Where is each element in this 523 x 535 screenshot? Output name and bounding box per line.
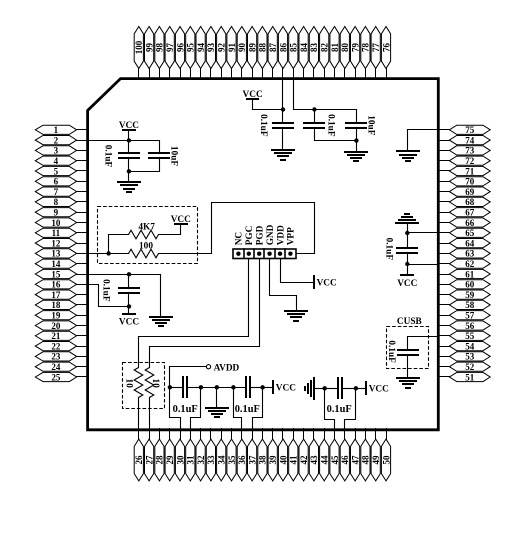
pin 83 [309,27,319,79]
svg-text:21: 21 [51,331,61,341]
pin 8 [35,197,88,207]
svg-text:84: 84 [299,43,309,53]
pin 90 [237,27,247,79]
pin 97 [165,27,175,79]
pin 98 [155,27,165,79]
node A junction [281,107,285,111]
pin 33 [206,429,216,481]
node junction bus-2 [199,385,203,389]
svg-text:53: 53 [465,352,475,362]
svg-text:PGC: PGC [245,226,255,246]
wire R3 to pin26 [138,398,140,431]
pin 20 [35,321,88,331]
svg-text:47: 47 [350,455,360,465]
svg-text:100: 100 [134,40,144,54]
svg-text:10: 10 [124,379,134,389]
pin 82 [320,27,330,79]
pin 17 [35,290,88,300]
svg-text:50: 50 [381,455,391,465]
ground (AVDD bus) [206,388,228,418]
svg-text:23: 23 [51,352,61,362]
pin 86 [278,27,288,79]
node junction bus-1 [168,385,172,389]
pin 70 [439,177,491,187]
pin 19 [35,311,88,321]
node junction (C10 left) [323,386,327,390]
svg-text:77: 77 [371,43,381,53]
pin 14 [35,259,88,269]
node junction (top-left gnd) [127,169,131,173]
pin 21 [35,331,88,341]
label C5 10uF [366,115,376,135]
pin 18 [35,300,88,310]
pin 93 [206,27,216,79]
pin 91 [227,27,237,79]
svg-text:VCC: VCC [397,279,417,289]
pin 77 [371,27,381,79]
pin 66 [439,218,491,228]
pin 2 [35,135,88,145]
wire pin86 down [282,79,284,110]
node junction (C6 bottom) [405,262,409,266]
svg-text:VCC: VCC [119,121,139,131]
pin 72 [439,156,491,166]
label J1 pin PGD [256,225,266,245]
pin 67 [439,208,491,218]
label R2 100 [139,241,153,251]
label R1 4K7 [138,223,155,233]
svg-text:31: 31 [186,455,196,465]
svg-text:98: 98 [155,43,165,53]
wire pin2 to node [87,140,129,142]
wire bus to VCC [263,387,273,389]
pin 10 [35,218,88,228]
pin 79 [350,27,360,79]
pin 95 [186,27,196,79]
power VCC symbol (top-center) [243,90,263,110]
connector J1 ICSP header [233,249,296,259]
svg-text:68: 68 [465,197,475,207]
pin 1 [35,125,88,135]
label J1 pin VPP [287,227,297,245]
wire bus-4 to pin36 [234,388,242,431]
svg-text:91: 91 [227,43,237,53]
pin 89 [247,27,257,79]
svg-text:48: 48 [361,455,371,465]
wire pin15 rail [87,274,161,276]
pin 60 [439,280,491,290]
node junction (C5 bottom) [354,138,358,142]
label C9 0.1uF [235,404,260,415]
pin 56 [439,321,491,331]
svg-text:AVDD: AVDD [214,364,240,374]
svg-text:33: 33 [206,455,216,465]
svg-text:0.1uF: 0.1uF [327,404,352,415]
svg-text:0.1uF: 0.1uF [386,340,396,363]
wire R2 to header loop [159,203,315,254]
svg-text:54: 54 [465,341,475,351]
pin 36 [237,429,247,481]
wire C10-left to pin45 [325,389,335,431]
label C11 0.1uF [386,340,396,363]
power VCC symbol (bottom-right) [366,382,389,395]
svg-text:90: 90 [237,43,247,53]
pin 30 [175,429,185,481]
pin 59 [439,290,491,300]
wire J1 PGC to R3 [139,259,249,368]
svg-text:67: 67 [465,208,475,218]
node junction (C7 top) [127,272,131,276]
svg-text:4K7: 4K7 [138,223,155,233]
svg-text:60: 60 [465,280,475,290]
node junction (C7 bottom) [127,304,131,308]
svg-text:11: 11 [52,228,61,238]
svg-text:51: 51 [465,372,475,382]
svg-text:30: 30 [175,455,185,465]
svg-text:6: 6 [54,177,59,187]
svg-text:78: 78 [361,43,371,53]
label C4 0.1uF [325,114,335,137]
pin 84 [299,27,309,79]
pin 42 [299,429,309,481]
svg-text:0.1uF: 0.1uF [325,114,335,137]
ground (left-middle) [150,317,172,326]
node junction (C10 right) [354,386,358,390]
wire R4 to pin27 [149,398,151,431]
pin 7 [35,187,88,197]
svg-text:80: 80 [340,43,350,53]
svg-text:56: 56 [465,321,475,331]
label C7 0.1uF [101,279,111,302]
svg-text:45: 45 [330,455,340,465]
svg-text:GND: GND [266,224,276,245]
wire pin13 in [87,253,109,255]
wire R1 to VCC [159,225,181,235]
svg-text:20: 20 [51,321,61,331]
svg-text:PGD: PGD [256,225,266,245]
pin 9 [35,208,88,218]
svg-text:85: 85 [289,43,299,53]
wire VCC to node A [253,109,283,111]
wire pin75 to ground [408,130,439,152]
pin 96 [175,27,185,79]
svg-text:46: 46 [340,455,350,465]
ground (ICSP) [285,311,307,321]
label C8 0.1uF [173,404,198,415]
svg-text:95: 95 [186,43,196,53]
power VCC symbol (reset network) [171,215,191,225]
pin 69 [439,187,491,197]
power VCC symbol (AVDD bus) [273,381,296,394]
label J1 pin VDD [276,225,286,245]
svg-text:34: 34 [217,455,227,465]
svg-text:86: 86 [278,43,288,53]
svg-text:65: 65 [465,228,475,238]
svg-text:VCC: VCC [243,90,263,100]
pin 41 [289,429,299,481]
svg-text:10uF: 10uF [169,146,179,166]
dashed box (PGC/PGD resistors) [123,363,165,409]
pin 49 [371,429,381,481]
capacitor C7 0.1uF [119,275,139,307]
svg-text:18: 18 [51,300,61,310]
pin 51 [439,372,491,382]
label net AVDD [214,364,240,374]
svg-text:17: 17 [51,290,61,300]
pin 55 [439,331,491,341]
label C3 0.1uF [258,114,268,137]
pin 74 [439,135,491,145]
wire pin65 to node [408,232,439,234]
svg-text:70: 70 [465,177,475,187]
capacitor C4 0.1uF [304,110,324,141]
svg-text:3: 3 [54,146,59,156]
pin 63 [439,249,491,259]
svg-text:81: 81 [330,43,340,53]
svg-text:93: 93 [206,43,216,53]
svg-text:96: 96 [175,43,185,53]
wire J1 VDD pin to VCC [281,259,314,283]
pin 100 [134,27,144,79]
node junction bus-3 [215,385,219,389]
svg-text:87: 87 [268,43,278,53]
svg-text:88: 88 [258,43,268,53]
pin 58 [439,300,491,310]
svg-text:10: 10 [51,218,61,228]
svg-text:63: 63 [465,249,475,259]
svg-text:37: 37 [247,455,257,465]
wire C10-right to pin46 [345,389,356,431]
svg-text:19: 19 [51,311,61,321]
svg-text:VCC: VCC [276,384,296,394]
svg-text:82: 82 [320,43,330,53]
svg-text:73: 73 [465,146,475,156]
svg-text:NC: NC [235,232,245,245]
wire pin16 to C7 bottom [87,285,129,307]
resistor R3 10 [134,368,143,398]
svg-text:0.1uF: 0.1uF [235,404,260,415]
svg-text:7: 7 [54,187,59,197]
node B junction [312,107,316,111]
pin 61 [439,269,491,279]
wire AVDD to bus [170,367,207,388]
svg-text:69: 69 [465,187,475,197]
svg-text:97: 97 [165,43,175,53]
svg-text:9: 9 [54,208,59,218]
svg-text:94: 94 [196,43,206,53]
svg-text:66: 66 [465,218,475,228]
svg-text:0.1uF: 0.1uF [101,279,111,302]
pin 22 [35,341,88,351]
svg-text:12: 12 [51,238,61,248]
IC U1 body outline [88,79,439,430]
pin 65 [439,228,491,238]
capacitor C5 10uF [346,110,366,152]
pin 92 [217,27,227,79]
pin 48 [361,429,371,481]
svg-text:72: 72 [465,156,475,166]
svg-text:13: 13 [51,249,61,259]
power VCC symbol (ICSP VDD) [314,276,337,288]
svg-text:27: 27 [144,455,154,465]
label C10 0.1uF [327,404,352,415]
svg-text:CUSB: CUSB [397,317,422,327]
capacitor C10 0.1uF [325,378,356,398]
resistor R4 10 [145,368,154,398]
svg-text:44: 44 [320,455,330,465]
svg-text:0.1uF: 0.1uF [383,238,393,261]
wire node B to C5 top [315,109,357,111]
capacitor C9 0.1uF [246,377,263,397]
svg-text:43: 43 [309,455,319,465]
pin 13 [35,249,88,259]
svg-text:0.1uF: 0.1uF [173,404,198,415]
svg-text:100: 100 [139,241,153,251]
dashed box (CUSB) [387,327,429,369]
wire J1 GND pin to ground [270,259,297,311]
svg-text:39: 39 [268,455,278,465]
svg-text:74: 74 [465,135,475,145]
node junction (C6 top) [405,231,409,235]
capacitor C8 0.1uF [170,377,201,397]
svg-text:26: 26 [134,455,144,465]
wire pin55 to C11 [408,337,439,351]
pin 78 [361,27,371,79]
svg-text:92: 92 [217,43,227,53]
pin 46 [340,429,350,481]
pin 32 [196,429,206,481]
svg-text:14: 14 [51,259,61,269]
pin 39 [268,429,278,481]
svg-text:4: 4 [54,156,59,166]
wire bus-2 to pin31 [191,388,201,431]
pin 81 [330,27,340,79]
svg-text:VCC: VCC [369,385,389,395]
svg-text:41: 41 [289,455,299,465]
svg-text:25: 25 [51,372,61,382]
node junction (top-left VCC rail) [127,138,131,142]
svg-text:VPP: VPP [287,227,297,245]
wire node up to R1 [109,235,129,254]
svg-text:71: 71 [465,166,475,176]
capacitor C6 0.1uF [397,233,417,265]
svg-text:15: 15 [51,269,61,279]
svg-text:24: 24 [51,362,61,372]
pin 24 [35,362,88,372]
wire bus mid [201,387,246,389]
pin 15 [35,269,88,279]
label net CUSB [397,317,422,327]
svg-text:52: 52 [465,362,475,372]
node junction bus-4 [231,385,235,389]
svg-text:42: 42 [299,455,309,465]
pin 85 [289,27,299,79]
svg-text:38: 38 [258,455,268,465]
node junction bus-5 [260,385,264,389]
node junction (reset) [106,251,110,255]
ground (under C3) [272,150,294,160]
ground (sideways, bottom-right) [305,378,325,399]
power VCC symbol (flipped, left-middle) [119,307,139,328]
wire J1 PGD to R4 [150,259,260,368]
ground (CUSB) [397,378,419,388]
pin 35 [227,429,237,481]
label C1 0.1uF [103,145,113,168]
pin 87 [268,27,278,79]
pin 94 [196,27,206,79]
power VCC symbol (flipped, right-middle) [397,265,417,290]
svg-text:75: 75 [465,125,475,135]
pin 28 [155,429,165,481]
svg-text:1: 1 [54,125,59,135]
svg-text:22: 22 [51,341,61,351]
svg-text:64: 64 [465,238,475,248]
svg-text:2: 2 [54,135,59,145]
pin 12 [35,238,88,248]
wire bus-1 to pin30 [170,388,181,431]
pin 68 [439,197,491,207]
pin 62 [439,259,491,269]
pin 6 [35,177,88,187]
pin 45 [330,429,340,481]
svg-text:49: 49 [371,455,381,465]
label J1 pin PGC [245,226,255,246]
svg-text:61: 61 [465,269,475,279]
svg-text:79: 79 [350,43,360,53]
pin 4 [35,156,88,166]
svg-text:VCC: VCC [119,317,139,327]
svg-text:8: 8 [54,197,59,207]
ground (top-left) [118,172,140,193]
pin 71 [439,166,491,176]
pin 43 [309,429,319,481]
label C2 10uF [169,146,179,166]
resistor R2 100 [109,249,159,258]
wire C10 to VCC [356,388,366,390]
pin 73 [439,146,491,156]
pin 29 [165,429,175,481]
pin 5 [35,166,88,176]
pin 37 [247,429,257,481]
svg-text:62: 62 [465,259,475,269]
pin 26 [134,429,144,481]
pin 40 [278,429,288,481]
svg-text:40: 40 [278,455,288,465]
wire C1/C2 bottoms [129,171,160,173]
wire pin62 to node [408,264,439,266]
pin 88 [258,27,268,79]
svg-text:55: 55 [465,331,475,341]
ground (pin75) [397,151,419,161]
svg-text:59: 59 [465,290,475,300]
label R3 10 [124,379,134,389]
pin 38 [258,429,268,481]
wire pin85 down [294,79,315,110]
svg-text:28: 28 [155,455,165,465]
wire C4/C5 bottoms [315,140,357,142]
svg-text:VCC: VCC [171,215,191,225]
capacitor C3 0.1uF [273,110,293,151]
wire node to C2 branch [129,140,160,142]
ground (under C5) [345,152,367,161]
pin 47 [350,429,360,481]
label J1 pin NC [235,232,245,245]
svg-text:57: 57 [465,311,475,321]
power VCC symbol (top-left) [119,121,139,141]
svg-text:36: 36 [237,455,247,465]
wire rail to ground (left-middle) [160,275,162,317]
pin 34 [217,429,227,481]
